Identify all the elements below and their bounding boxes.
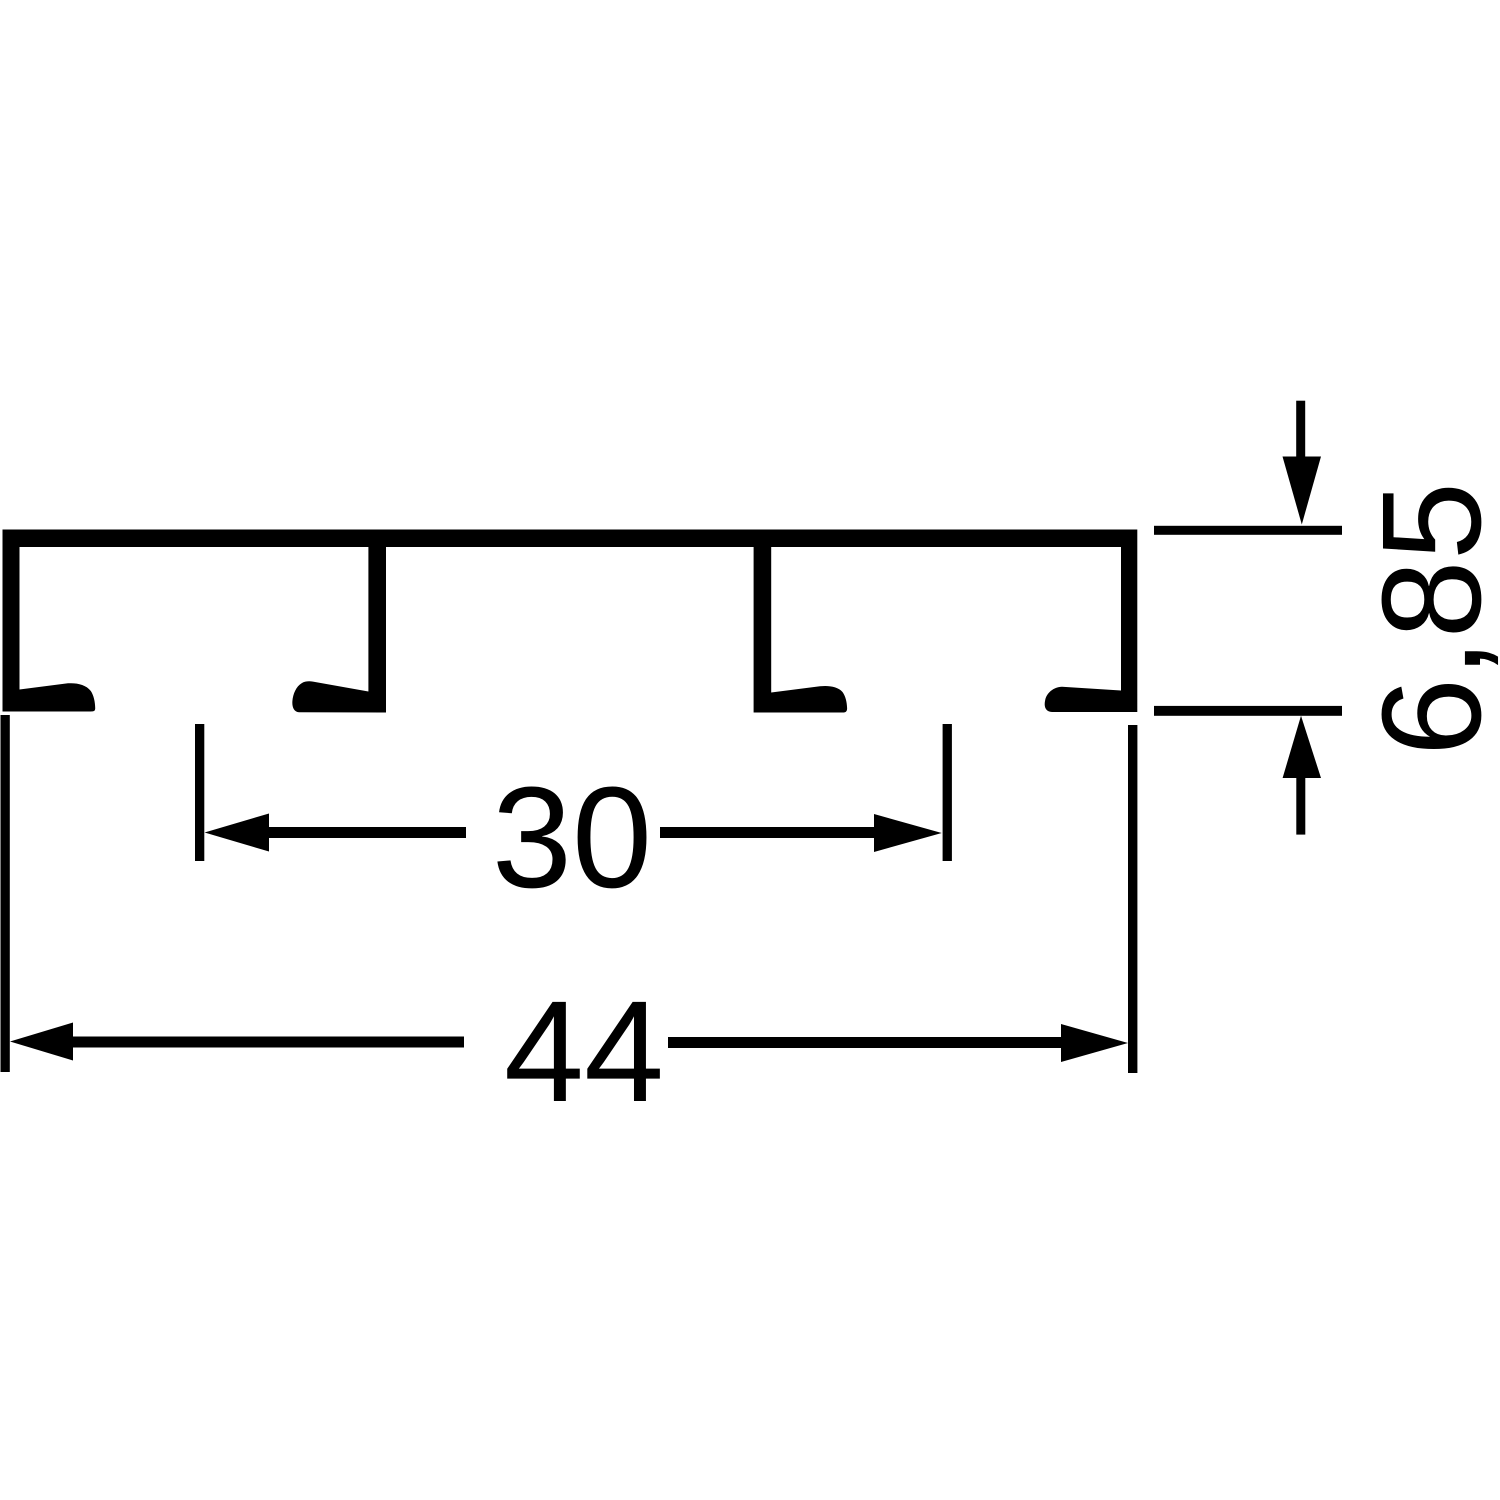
svg-text:6,85: 6,85 bbox=[1352, 482, 1500, 756]
svg-text:30: 30 bbox=[492, 757, 652, 918]
svg-text:44: 44 bbox=[504, 971, 664, 1132]
extension line 6,85 top bbox=[1154, 526, 1342, 535]
dimension line 44 right shaft bbox=[668, 1037, 1065, 1048]
dimension arrowhead 30 left bbox=[205, 814, 269, 852]
dimension line 30 right shaft bbox=[660, 827, 880, 838]
dimension arrow 6,85 upper shaft bbox=[1296, 401, 1305, 461]
dimension arrowhead 44 left bbox=[10, 1023, 73, 1061]
dimension line 30 left shaft bbox=[262, 827, 466, 838]
extension line 6,85 bottom bbox=[1154, 706, 1342, 716]
extension line 44 right bbox=[1128, 725, 1137, 1073]
dimension arrowhead 44 right bbox=[1061, 1024, 1128, 1062]
dimension arrowhead 6,85 lower (pointing up) bbox=[1283, 716, 1321, 778]
extension line 30 left bbox=[195, 724, 204, 861]
dimension arrowhead 6,85 upper (pointing down) bbox=[1283, 457, 1322, 525]
dimension arrow 6,85 lower shaft bbox=[1296, 774, 1305, 835]
extension line 44 left bbox=[1, 715, 10, 1072]
profile cross-section (top-hat rail, filled outline) bbox=[3, 530, 1138, 713]
dimension line 44 left shaft bbox=[66, 1037, 464, 1048]
extension line 30 right bbox=[943, 724, 952, 861]
dimension arrowhead 30 right bbox=[874, 814, 942, 852]
